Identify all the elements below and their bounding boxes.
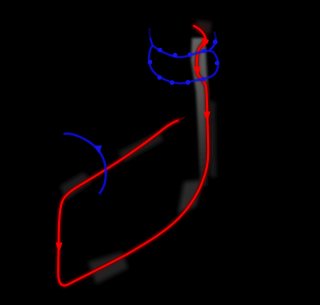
faint gray block along bottom sweep — [88, 252, 128, 284]
faint dark-red ghost at diagonal tip — [179, 118, 184, 121]
faint gray block under mid diagonal — [118, 132, 164, 162]
blue arrowhead on arc — [94, 145, 102, 154]
blue arc trajectory (middle-left) — [64, 134, 106, 194]
blue entry trajectory (left tail into loop) — [148, 28, 151, 38]
red arrowhead A2 (inside blue loop, pointing down) — [194, 67, 201, 77]
red trajectory (large relaxation-oscillation loop) — [58, 26, 208, 285]
red arrowhead A4 (left branch, pointing down) — [56, 243, 63, 253]
faint gray block near lower-left bend — [60, 172, 92, 200]
red arrowhead A1 (top hook, pointing down-left) — [202, 38, 209, 49]
gray bar (vertical smear behind red right branch) — [191, 38, 208, 186]
faint gray block near lower-right bend — [178, 180, 202, 214]
red arrowhead A3 (right branch, pointing down) — [204, 112, 211, 122]
faint gray block near top red hook — [196, 20, 212, 34]
blue arrowheads along inner cycle — [158, 48, 163, 53]
blue arrowhead on right tail — [213, 40, 218, 45]
red trajectory dark halo — [58, 26, 208, 285]
blue entry trajectory (right tail into loop) — [214, 32, 215, 39]
faint gray streak right of red right branch — [209, 100, 216, 178]
blue inner cycle (small closed loop) — [149, 46, 218, 84]
